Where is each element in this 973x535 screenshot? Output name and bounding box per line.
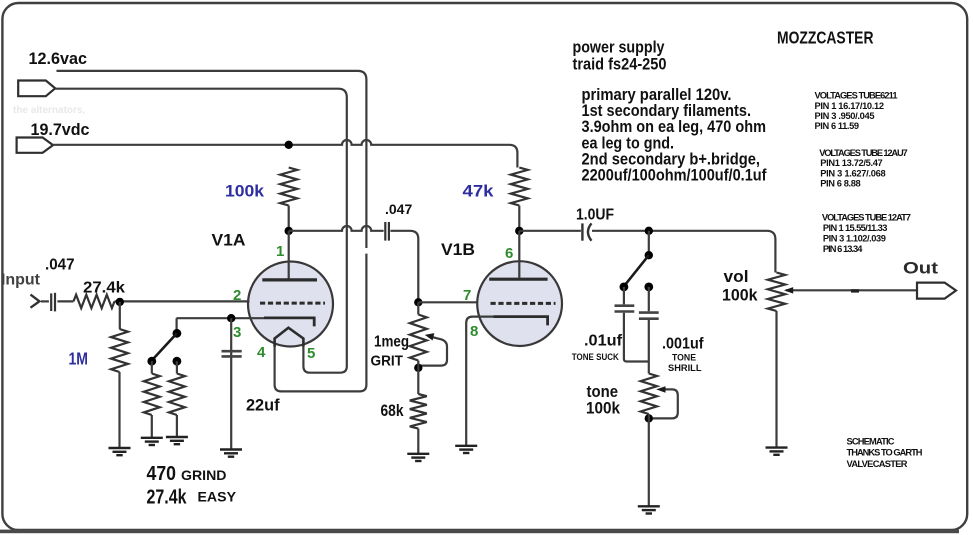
V1B plate bar	[489, 278, 547, 281]
node: plate V1A / .047 junction	[285, 227, 293, 235]
wire: 47k bottom to plate junction	[518, 206, 520, 232]
svg-text:THANKS TO GARTH: THANKS TO GARTH	[847, 448, 923, 458]
node: B+/100k junction	[285, 141, 293, 149]
svg-text:VALVECASTER: VALVECASTER	[847, 459, 908, 469]
svg-text:PIN1 13.72/5.47: PIN1 13.72/5.47	[820, 158, 883, 168]
svg-text:SCHEMATIC: SCHEMATIC	[847, 437, 895, 447]
svg-text:47k: 47k	[463, 182, 495, 201]
svg-text:V1A: V1A	[212, 232, 246, 250]
svg-text:5: 5	[307, 345, 315, 362]
node: GRIT top junction	[414, 298, 422, 306]
switch SW1 contact left	[147, 357, 156, 366]
svg-text:VOLTAGES TUBE 12AU7: VOLTAGES TUBE 12AU7	[819, 148, 908, 158]
svg-text:100k: 100k	[225, 182, 265, 201]
wire: 1M to ground	[118, 372, 120, 447]
svg-text:the alternators,: the alternators,	[13, 105, 85, 116]
resistor 470	[144, 374, 160, 416]
svg-text:GRIND: GRIND	[181, 467, 227, 483]
wire: .01uf down and over to tone pot	[624, 313, 649, 362]
ground tone	[638, 506, 660, 513]
capacitor .001uf	[639, 311, 659, 314]
switch SW2 pivot	[645, 251, 653, 259]
svg-text:VOLTAGES TUBE 12AT7: VOLTAGES TUBE 12AT7	[822, 212, 911, 222]
svg-text:2200uf/100ohm/100uf/0.1uf: 2200uf/100ohm/100uf/0.1uf	[582, 167, 767, 185]
wire: 1.0UF output line	[519, 230, 581, 232]
connector Out	[917, 283, 956, 299]
svg-text:6: 6	[505, 245, 513, 262]
wire: tone pot to ground	[648, 414, 650, 506]
potentiometer vol 100k	[768, 273, 785, 312]
wire: 22uf branch down to ground	[230, 318, 232, 449]
wire: 100k bottom to plate junction	[288, 206, 290, 232]
svg-text:470: 470	[147, 462, 177, 485]
wire: switch feed from pin3 line	[176, 318, 178, 333]
svg-text:PIN 1 16.17/10.12: PIN 1 16.17/10.12	[815, 101, 885, 111]
wire: V1A cathode (pin 3) line	[176, 317, 264, 319]
wire: to grid V1B (pin 7)	[418, 301, 480, 303]
svg-text:PIN 6 11.59: PIN 6 11.59	[815, 121, 860, 131]
wire gap artifact on rail	[364, 248, 369, 254]
wire: 27.4k to ground	[176, 415, 178, 436]
svg-text:7: 7	[463, 287, 471, 304]
svg-text:VOLTAGES TUBE6211: VOLTAGES TUBE6211	[815, 91, 898, 101]
tube V1B envelope	[477, 261, 562, 346]
ground 470	[141, 438, 163, 445]
capacitor 1.0UF	[581, 223, 583, 240]
ground 22uf	[220, 450, 242, 457]
svg-text:vol: vol	[724, 268, 749, 286]
svg-text:EASY: EASY	[198, 489, 237, 505]
resistor 47k (plate load V1B)	[511, 168, 528, 206]
V1B grid dashes	[491, 302, 556, 305]
switch SW1 lever	[152, 333, 177, 360]
svg-text:1M: 1M	[69, 349, 89, 369]
capacitor 22uf	[222, 350, 242, 353]
V1A plate bar	[262, 278, 317, 281]
wire: 12.6vac connector line to rail x=347 down to pin 5 of V1A	[55, 89, 347, 373]
node: GRIT bottom junction	[414, 364, 422, 372]
svg-text:.047: .047	[385, 201, 412, 217]
svg-text:1.0UF: 1.0UF	[576, 207, 614, 224]
svg-text:power supply: power supply	[573, 39, 666, 57]
node: plate V1B junction	[515, 227, 523, 235]
wire: left contact to 470	[151, 361, 153, 373]
wire: GRIT to 68k	[417, 361, 419, 395]
svg-text:12.6vac: 12.6vac	[29, 50, 88, 68]
connector 19.7vdc	[17, 138, 53, 153]
svg-text:.001uf: .001uf	[662, 336, 704, 353]
input chevron	[31, 295, 40, 308]
V1A plate lead (pin 1)	[288, 231, 290, 279]
node: tone bottom junction	[645, 414, 653, 422]
switch SW2 lever	[625, 255, 649, 285]
switch SW2 contact right	[644, 283, 653, 292]
ground 1M	[109, 448, 131, 455]
svg-text:2: 2	[233, 287, 241, 304]
potentiometer 1meg GRIT	[410, 315, 427, 361]
svg-text:PIN 6 13.34: PIN 6 13.34	[823, 244, 863, 254]
ground V1B cathode	[455, 446, 477, 453]
svg-text:SHRILL: SHRILL	[668, 363, 702, 373]
svg-text:3: 3	[233, 324, 241, 341]
voltages tube 12AT7	[822, 212, 911, 254]
vol wiper wire to Out	[786, 289, 917, 291]
potentiometer tone 100k	[641, 374, 657, 415]
wire: .047 coupling line with hops, bends down to GRIT pot	[289, 226, 384, 231]
switch SW1 common	[173, 329, 182, 338]
V1B cathode bar	[494, 317, 548, 326]
wire: 12.6vac upper heater line to rail x=366 down to pin 4 of V1A	[57, 71, 367, 392]
switch SW2 contact left	[620, 283, 629, 292]
svg-text:Input: Input	[1, 272, 40, 289]
wire: right contact to 27.4k	[176, 361, 178, 373]
capacitor .047 input	[50, 293, 52, 311]
svg-text:PIN 3 1.102/.039: PIN 3 1.102/.039	[823, 233, 886, 243]
resistor 68k	[410, 394, 427, 429]
svg-text:.047: .047	[45, 257, 75, 274]
svg-text:PIN 6 8.88: PIN 6 8.88	[820, 179, 861, 189]
wire: right contact to .001uf	[648, 287, 650, 311]
V1A cathode bar	[264, 318, 314, 327]
svg-text:PIN 3 1.627/.068: PIN 3 1.627/.068	[820, 168, 886, 178]
svg-text:1: 1	[276, 243, 284, 260]
svg-text:PIN 3 .950/.045: PIN 3 .950/.045	[815, 111, 875, 121]
svg-text:68k: 68k	[381, 402, 405, 420]
ground vol	[766, 448, 788, 455]
node: tone switch junction	[645, 227, 653, 235]
svg-text:PIN 1 15.55/11.33: PIN 1 15.55/11.33	[823, 223, 888, 233]
resistor 27.4k input	[74, 295, 115, 308]
node: grid junction / 1M	[116, 298, 124, 306]
svg-text:27.4k: 27.4k	[83, 280, 125, 297]
wire: input line to grid V1A (pin 2)	[41, 300, 49, 302]
svg-text:Out: Out	[903, 260, 939, 278]
svg-text:tone: tone	[587, 383, 619, 401]
resistor 1M	[111, 329, 128, 372]
voltages tube 12AU7	[819, 148, 908, 189]
svg-text:22uf: 22uf	[246, 397, 280, 415]
ground 27.4k	[166, 437, 188, 444]
switch SW1 contact right	[173, 357, 182, 366]
V1A heater filament	[275, 328, 304, 347]
wire tick artifact	[851, 289, 859, 292]
wire: V1B cathode to ground	[466, 317, 493, 445]
V1B plate lead (pin 6)	[518, 231, 520, 278]
wire: .001uf down to tone pot	[648, 320, 650, 374]
voltages tube 6211	[815, 91, 898, 131]
svg-text:100k: 100k	[586, 400, 621, 418]
wire: 470 to ground	[151, 415, 153, 437]
svg-text:V1B: V1B	[441, 241, 475, 259]
svg-text:TONE: TONE	[672, 353, 696, 363]
svg-text:1meg: 1meg	[374, 334, 409, 351]
resistor 100k (plate load V1A)	[280, 168, 297, 206]
svg-text:GRIT: GRIT	[371, 353, 404, 370]
resistor 27.4k cathode	[169, 374, 185, 416]
schematic credit	[847, 437, 923, 469]
svg-text:27.4k: 27.4k	[147, 486, 187, 509]
svg-text:.01uf: .01uf	[584, 333, 623, 350]
ground 68k	[407, 454, 429, 461]
svg-text:19.7vdc: 19.7vdc	[31, 121, 90, 139]
svg-text:100k: 100k	[722, 287, 758, 305]
svg-text:8: 8	[470, 323, 478, 340]
GRIT wiper loop	[421, 336, 447, 366]
svg-text:4: 4	[257, 344, 266, 361]
wire: 68k to ground	[417, 429, 419, 453]
tube V1A envelope	[248, 262, 333, 347]
tone wiper loop	[652, 389, 678, 418]
capacitor .01uf	[615, 304, 635, 307]
wire: to tone switch pivot	[648, 231, 650, 255]
svg-text:TONE SUCK: TONE SUCK	[572, 352, 620, 362]
connector 12.6vac	[18, 81, 55, 97]
svg-text:MOZZCASTER: MOZZCASTER	[777, 28, 874, 48]
capacitor .047 interstage	[384, 222, 386, 241]
wire: left contact to .01uf	[623, 287, 625, 305]
V1A grid dashes	[260, 302, 325, 305]
wire: down to 1M	[119, 302, 121, 329]
wire: 19.7vdc B+ line with hops over heater rails, into 47k	[53, 140, 517, 168]
svg-text:traid fs24-250: traid fs24-250	[573, 56, 667, 74]
node: pin3/22uf junction	[227, 314, 235, 322]
wire: vol pot to ground	[775, 311, 777, 447]
